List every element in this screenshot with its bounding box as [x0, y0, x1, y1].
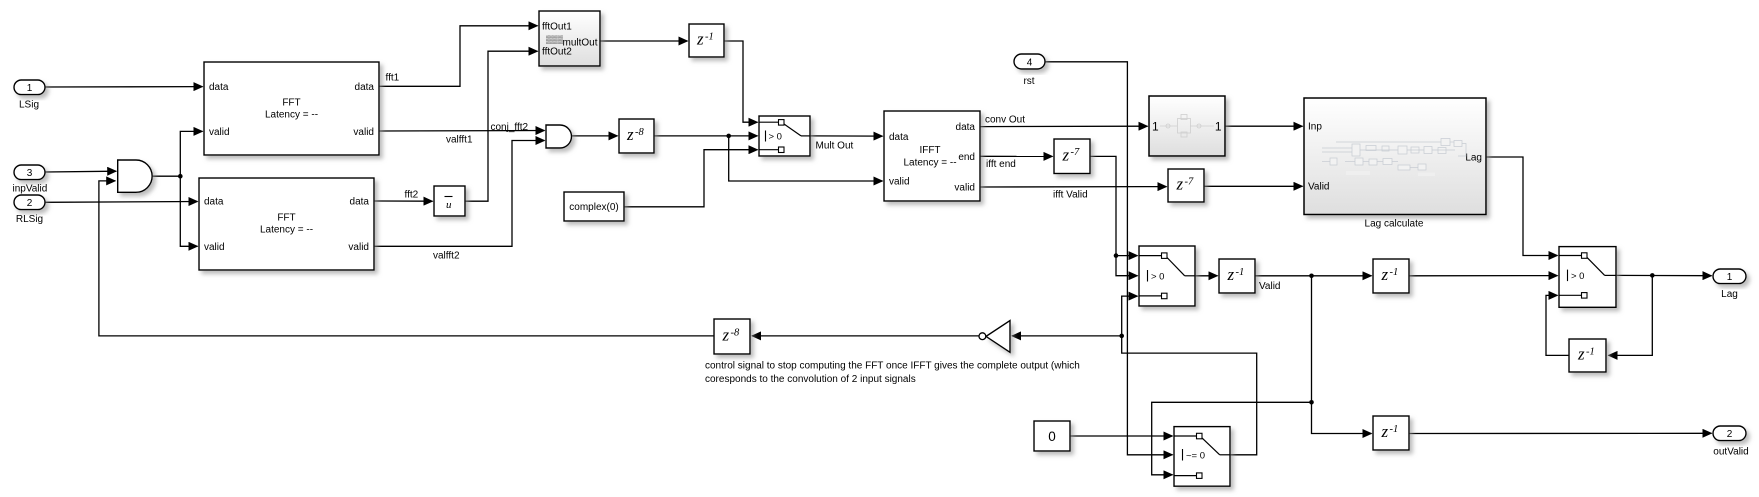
- svg-text:ifft end: ifft end: [986, 159, 1016, 170]
- svg-text:z: z: [1176, 175, 1184, 194]
- delay z^-1 (Valid): [1219, 259, 1255, 293]
- node valid junction: [178, 174, 183, 179]
- delay z^-1 (mid): [1373, 259, 1409, 293]
- FFT block 1: [204, 62, 379, 155]
- svg-text:▒▒▒: ▒▒▒: [546, 35, 563, 44]
- svg-text:rst: rst: [1023, 76, 1034, 87]
- svg-text:conv Out: conv Out: [985, 114, 1025, 125]
- svg-text:0: 0: [1048, 429, 1056, 444]
- svg-text:1: 1: [1215, 120, 1222, 134]
- wire switch3 out to Lag port: [1616, 274, 1712, 276]
- wire feedback branch to NOT gate: [1012, 335, 1122, 337]
- wire fft1 to fftOut1: [379, 26, 538, 87]
- wire rst to switch2 control: [1045, 62, 1173, 455]
- wire ifft end to z7a: [980, 155, 1053, 157]
- wire conv Out to subsystem11: [980, 125, 1148, 127]
- svg-text:1: 1: [27, 83, 33, 94]
- svg-text:-1: -1: [1586, 347, 1595, 358]
- svg-text:RLSig: RLSig: [16, 214, 43, 225]
- svg-text:valid: valid: [348, 242, 369, 253]
- svg-text:2: 2: [1727, 429, 1733, 440]
- math function conj (u bar): [434, 186, 465, 216]
- svg-text:outValid: outValid: [1713, 446, 1748, 457]
- svg-text:data: data: [355, 82, 375, 93]
- node valid-ifft junction: [726, 134, 731, 139]
- svg-text:z: z: [1227, 265, 1235, 284]
- svg-text:FFT: FFT: [277, 213, 295, 224]
- wire z7a branch to switch1 in1: [1116, 255, 1138, 257]
- svg-text:Lag: Lag: [1721, 289, 1738, 300]
- subsystem Lag calculate: [1304, 98, 1486, 215]
- wire inpValid to AND1 in1: [45, 170, 116, 173]
- wire AND2 out to z8a: [571, 135, 618, 137]
- delay z^-1 (outValid): [1373, 416, 1409, 450]
- wire Mult Out to IFFT data: [810, 135, 883, 137]
- svg-text:-8: -8: [731, 328, 740, 339]
- svg-text:z: z: [722, 326, 730, 345]
- constant complex(0): [564, 192, 624, 221]
- svg-text:-7: -7: [1071, 147, 1080, 158]
- svg-text:valfft2: valfft2: [433, 250, 460, 261]
- svg-text:> 0: > 0: [1571, 271, 1584, 282]
- svg-text:data: data: [204, 197, 224, 208]
- svg-text:1: 1: [1727, 272, 1733, 283]
- IFFT block: [884, 111, 980, 201]
- svg-text:fft2: fft2: [405, 189, 419, 200]
- svg-text:valid: valid: [204, 242, 225, 253]
- svg-text:conj_fft2: conj_fft2: [491, 122, 529, 133]
- svg-text:LSig: LSig: [19, 100, 39, 111]
- switch Mult Out: [759, 116, 810, 156]
- svg-text:Inp: Inp: [1308, 122, 1322, 133]
- inport 3 inpValid: [12, 165, 47, 195]
- svg-text:Latency = --: Latency = --: [260, 225, 313, 236]
- svg-text:data: data: [889, 132, 909, 143]
- svg-text:control signal to stop computi: control signal to stop computing the FFT…: [705, 360, 1080, 371]
- wire z7a to switch1 control: [1090, 156, 1138, 275]
- wire subsystem11 to Lag calculate Inp: [1225, 125, 1303, 127]
- svg-text:-8: -8: [635, 127, 644, 138]
- wire z1c to switch3 control: [1409, 275, 1558, 277]
- wire valfft1 to AND2 in1: [379, 130, 545, 133]
- node Valid junction: [1309, 274, 1314, 279]
- inport 4 rst: [1014, 54, 1045, 87]
- wire AND1 out to valid junction: [152, 175, 180, 177]
- svg-text:-1: -1: [705, 32, 714, 43]
- delay z^-1 (after multOut): [689, 24, 724, 57]
- svg-text:z: z: [1381, 422, 1389, 441]
- svg-text:z: z: [1062, 146, 1070, 165]
- delay z^-7 (ifft end): [1054, 139, 1090, 174]
- svg-text:multOut: multOut: [562, 37, 597, 48]
- wire switch2 out feedback to switch1 in3: [1122, 296, 1257, 455]
- wire z1a to switchM in1: [724, 41, 758, 122]
- and gate U2 (valfft1 AND valfft2): [546, 125, 572, 148]
- svg-text:Valid: Valid: [1308, 182, 1330, 193]
- svg-text:z: z: [1381, 265, 1389, 284]
- inport 1 LSig: [14, 80, 45, 111]
- switch 3 (Lag out): [1559, 247, 1616, 308]
- svg-text:valid: valid: [209, 127, 230, 138]
- svg-text:4: 4: [1027, 57, 1033, 68]
- svg-text:> 0: > 0: [1151, 272, 1164, 283]
- wire z1d to outValid: [1409, 432, 1712, 434]
- svg-text:Latency = --: Latency = --: [903, 157, 956, 168]
- node Valid lower junction: [1309, 400, 1314, 405]
- delay z^-7 (ifft Valid): [1168, 169, 1204, 202]
- svg-text:Latency = --: Latency = --: [265, 110, 318, 121]
- svg-text:2: 2: [27, 198, 33, 209]
- svg-text:valid: valid: [353, 127, 374, 138]
- wire z8a out to switchM control: [654, 135, 758, 137]
- wire RLSig to FFT2 data: [45, 201, 198, 204]
- svg-text:valfft1: valfft1: [446, 135, 473, 146]
- wire multOut to z1a: [600, 40, 688, 42]
- switch 2 (rst ~= 0): [1174, 427, 1230, 487]
- wire ifft Valid to z7b: [980, 186, 1167, 188]
- svg-text:valid: valid: [954, 183, 975, 194]
- svg-text:fftOut2: fftOut2: [542, 47, 572, 58]
- svg-text:-1: -1: [1390, 267, 1399, 278]
- delay z^-1 (Lag feedback, reversed): [1569, 339, 1606, 372]
- wire LSig to FFT1 data: [45, 86, 203, 88]
- node feedback junction: [1119, 334, 1124, 339]
- svg-text:data: data: [209, 82, 229, 93]
- svg-text:end: end: [958, 152, 975, 163]
- wire switch1 out to z1b: [1195, 275, 1218, 277]
- svg-text:FFT: FFT: [282, 98, 300, 109]
- svg-text:IFFT: IFFT: [919, 145, 940, 156]
- svg-text:-7: -7: [1185, 177, 1194, 188]
- constant 0: [1034, 421, 1070, 451]
- node Lag junction: [1650, 273, 1655, 278]
- not gate (feedback inverter, points left): [979, 321, 1010, 353]
- FFT block 2: [199, 178, 374, 270]
- wire fft2 to conj: [374, 200, 433, 202]
- svg-text:z: z: [626, 125, 634, 144]
- svg-text:inpValid: inpValid: [12, 184, 47, 195]
- wire Lag out to switch3 in1: [1486, 157, 1558, 256]
- svg-text:-1: -1: [1236, 267, 1245, 278]
- outport 1 Lag: [1713, 269, 1746, 300]
- subsystem multOut (fftOut1/fftOut2): [539, 11, 600, 66]
- switch 1 (valid gate): [1139, 246, 1195, 306]
- wire complex0 to switchM in3: [624, 150, 758, 207]
- svg-text:ifft Valid: ifft Valid: [1053, 189, 1088, 200]
- wire valfft2 to AND2 in2: [374, 141, 545, 247]
- node z7a junction: [1114, 253, 1119, 258]
- svg-text:complex(0): complex(0): [569, 202, 618, 213]
- svg-text:Valid: Valid: [1259, 281, 1281, 292]
- wire valid branch to IFFT valid: [729, 136, 883, 181]
- wire z7b to Lag calculate Valid: [1204, 185, 1303, 187]
- wire valid junction to FFT1 valid: [180, 131, 202, 176]
- svg-text:~= 0: ~= 0: [1186, 451, 1205, 462]
- wire z1e to switch3 in3: [1546, 295, 1569, 355]
- svg-text:3: 3: [27, 168, 33, 179]
- svg-text:fft1: fft1: [386, 73, 400, 84]
- delay z^-8 (feedback, reversed): [714, 319, 750, 354]
- wire Valid branch to z1d: [1312, 402, 1372, 433]
- inport 2 RLSig: [14, 195, 45, 225]
- wire conj to fftOut2: [465, 51, 538, 201]
- outport 2 outValid: [1713, 426, 1749, 457]
- svg-text:1: 1: [1152, 120, 1159, 134]
- svg-text:data: data: [350, 197, 370, 208]
- svg-text:data: data: [956, 122, 976, 133]
- svg-text:valid: valid: [889, 177, 910, 188]
- wire Valid z1b to z1c: [1255, 275, 1372, 277]
- svg-text:coresponds to the convolution: coresponds to the convolution of 2 input…: [705, 374, 916, 385]
- wire Valid branch to switch2 in3: [1152, 402, 1312, 475]
- svg-text:-1: -1: [1390, 424, 1399, 435]
- wire Lag branch to z1e feedback: [1609, 275, 1653, 355]
- wire valid junction to FFT2 valid: [180, 176, 197, 246]
- wire Valid branch down: [1311, 276, 1313, 403]
- svg-text:z: z: [1577, 345, 1585, 364]
- subsystem 1-1 (conv out preview): [1149, 96, 1225, 156]
- wire z8b out to AND1 in2: [99, 181, 714, 336]
- and gate U1 (inpValid AND feedback): [118, 160, 152, 192]
- wire NOT gate out to z8b: [752, 335, 980, 337]
- svg-text:> 0: > 0: [769, 132, 782, 143]
- delay z^-8 (valid path): [619, 119, 654, 153]
- svg-text:u: u: [446, 199, 452, 211]
- svg-text:Lag: Lag: [1465, 153, 1482, 164]
- svg-text:fftOut1: fftOut1: [542, 21, 572, 32]
- svg-text:z: z: [696, 30, 704, 49]
- svg-text:Mult Out: Mult Out: [816, 141, 854, 152]
- svg-text:Lag calculate: Lag calculate: [1365, 219, 1424, 230]
- wire constant0 to switch2 in1: [1070, 435, 1173, 437]
